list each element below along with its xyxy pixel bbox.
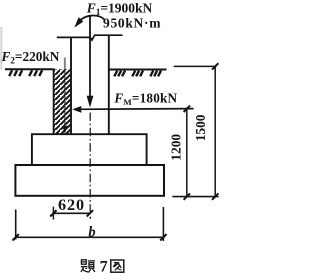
dimension 1200 line (186, 109, 188, 197)
moment arc 950kN·m arrow (78, 15, 104, 22)
force F1 arrow (vertical) (89, 15, 91, 98)
soil hatch right group 1 (114, 71, 117, 77)
620 dim extension line (52, 207, 54, 220)
dimension 1500 line (214, 66, 216, 196)
soil hatch left group 1 (9, 70, 12, 76)
footing bottom slab (15, 165, 164, 196)
ground line right (109, 69, 167, 71)
footing upper step (32, 134, 147, 165)
column left edge (70, 37, 72, 134)
soil hatch right group 3 (150, 71, 153, 77)
soil hatch left group 2 (29, 70, 32, 76)
column right edge (108, 35, 110, 134)
b dim left extension (15, 210, 17, 240)
b dim right extension (162, 207, 164, 241)
ground line left (5, 68, 55, 70)
soil hatch right group 2 (132, 71, 135, 77)
caption character 图 (hand drawn) (111, 260, 124, 272)
centerline (dash-dot) (89, 113, 91, 214)
svg-text:1200: 1200 (169, 134, 184, 161)
column top break line (57, 35, 123, 40)
page edge scan shadow (0, 27, 2, 70)
svg-text:FM=180kN: FM=180kN (113, 91, 177, 108)
ground extension line to 1500 dim (174, 65, 217, 67)
force FM arrow (horizontal, points left) (76, 108, 194, 111)
svg-text:620: 620 (58, 196, 85, 214)
svg-text:b: b (88, 225, 95, 241)
dimension b line (16, 236, 164, 238)
svg-text:1500: 1500 (193, 114, 208, 141)
bottom extension line for dims (172, 196, 218, 198)
F2 load arrowhead (62, 126, 68, 134)
svg-text:F2=220kN: F2=220kN (1, 49, 60, 66)
dimension 620 line (53, 212, 90, 214)
F2 load line (gray) on wall axis (64, 58, 66, 127)
masonry wall (hatched) (54, 69, 71, 134)
svg-text:7: 7 (100, 258, 108, 275)
caption character 题 (hand drawn) (81, 260, 86, 264)
svg-text:950kN·m: 950kN·m (103, 15, 161, 30)
